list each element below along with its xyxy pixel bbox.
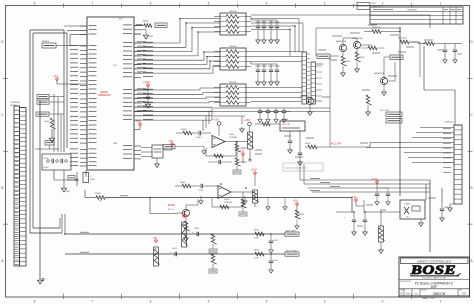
ground L4060 — [379, 248, 384, 253]
svg-text:7HB: 7HB — [113, 143, 118, 145]
ground C4070 — [155, 158, 160, 167]
U4000 right pin net labels — [143, 42, 153, 119]
supply +5V at C4070 — [163, 139, 173, 150]
svg-text:RN4001: RN4001 — [229, 46, 237, 48]
title block sheet row — [399, 296, 470, 300]
transistor Q4001 — [352, 37, 363, 52]
svg-text:C4045: C4045 — [198, 190, 203, 192]
svg-text:SM100-4R: SM100-4R — [398, 38, 407, 40]
transistor Q4002 — [374, 72, 388, 90]
svg-text:C4052: C4052 — [273, 240, 278, 242]
wire opamp2 output right — [243, 186, 300, 192]
resistor R4010 — [134, 21, 152, 28]
supply +1.3V mid — [238, 149, 245, 163]
wire AUD_LEFT line — [65, 214, 285, 234]
svg-text:8: 8 — [34, 300, 36, 304]
svg-text:C4000: C4000 — [90, 179, 95, 181]
svg-text:PLL2 CA: PLL2 CA — [282, 123, 290, 126]
connector J4004 label — [444, 122, 455, 124]
svg-text:C4060: C4060 — [444, 207, 449, 209]
net label AUX_RIGHT — [285, 250, 299, 257]
ground C4060 — [440, 216, 445, 221]
svg-text:GND: GND — [149, 36, 154, 38]
svg-text:27962-B01: 27962-B01 — [224, 202, 232, 204]
wire top-right bus — [300, 15, 430, 196]
net label SCLK — [155, 23, 167, 28]
ground opamp1 input — [202, 146, 206, 154]
bus line labels lower — [80, 179, 340, 253]
capacitor C4061 — [375, 188, 379, 205]
ground mid 2 — [243, 196, 247, 204]
wire U4000 top-left pins — [64, 26, 87, 46]
bead L4060 — [379, 211, 385, 248]
svg-text:MA2N2907A: MA2N2907A — [374, 72, 385, 75]
resistor R4055 vertical — [209, 234, 217, 253]
wire RN4002 outputs — [251, 88, 302, 102]
net label BOTTOM1 — [233, 170, 241, 174]
capacitor C4051 polarized — [170, 248, 177, 256]
resistor R4057 series — [254, 230, 264, 240]
svg-text:C4051: C4051 — [172, 248, 177, 250]
supply -15V opamp2 — [251, 168, 257, 186]
capacitor C4060 — [440, 202, 449, 216]
wire xtal feed — [336, 211, 366, 213]
net label AUX_LEFT — [285, 230, 299, 237]
header J4003 stack — [311, 62, 316, 104]
resistor R4026 vertical — [366, 95, 372, 115]
ground opamp2 area 1 — [266, 198, 270, 210]
capacitor C4045 — [198, 184, 218, 192]
svg-text:+5V: +5V — [153, 236, 158, 240]
ground rail stub — [240, 127, 245, 132]
resistor R4056 vertical — [209, 254, 217, 273]
ground connector shield — [37, 278, 44, 284]
svg-text:6: 6 — [150, 2, 152, 6]
capacitor C4053 — [269, 254, 278, 273]
svg-text:SM100: SM100 — [345, 61, 350, 63]
wire rails under RN4002 — [134, 56, 330, 147]
BOSE logo — [410, 264, 461, 280]
wire opamp2 feedback — [212, 192, 255, 207]
safety controlled box — [401, 258, 469, 264]
svg-text:SM100: SM100 — [359, 57, 364, 59]
svg-text:SD: SD — [414, 293, 417, 295]
capacitor C4062 — [377, 188, 390, 205]
supply +15V opamp1 — [213, 117, 221, 135]
capacitor C4001 pill — [35, 141, 59, 150]
header J4002 stack — [302, 52, 310, 104]
svg-text:DWG NO: DWG NO — [421, 290, 428, 292]
svg-text:B: B — [401, 291, 403, 295]
capacitor bank C4020-C4023 — [251, 17, 280, 44]
svg-text:295963-001: 295963-001 — [98, 94, 111, 97]
svg-text:7: 7 — [92, 300, 94, 304]
svg-text:7: 7 — [92, 2, 94, 6]
supply +5V right of U4000 — [134, 119, 141, 130]
svg-text:R4050: R4050 — [299, 214, 304, 216]
svg-text:+5V: +5V — [136, 119, 141, 123]
svg-text:C4000: C4000 — [43, 158, 48, 160]
resistor R4021 vertical — [355, 52, 364, 67]
svg-text:+3.3V: +3.3V — [350, 195, 357, 199]
transistor zone detail labels — [300, 25, 414, 97]
resistor R4022 — [364, 27, 400, 33]
svg-text:REVISION: REVISION — [407, 10, 417, 12]
svg-text:varies w/ volume level: varies w/ volume level — [285, 166, 307, 169]
svg-text:DESCRIPTION: DESCRIPTION — [400, 281, 412, 283]
resistor R4041 feedback — [214, 154, 223, 158]
svg-text:00: 00 — [462, 292, 466, 296]
ground crystal cluster — [61, 186, 70, 193]
IC U4000 DSP body — [87, 17, 134, 170]
svg-text:+5V: +5V — [169, 139, 174, 143]
bead L4051 on AUD_RIGHT — [153, 236, 160, 266]
svg-text:R4010: R4010 — [143, 21, 149, 23]
capacitor C4041 — [208, 160, 232, 164]
capacitor row C4080-C4083 — [258, 108, 291, 123]
wire fan U4000 to RN4000 — [134, 19, 220, 74]
resistor R4000 — [85, 193, 105, 203]
supply -15V opamp1 — [244, 118, 251, 132]
wire RN4000 outputs — [251, 15, 300, 56]
resistor R4040 — [176, 129, 198, 135]
svg-text:C4050: C4050 — [194, 228, 199, 230]
capacitor C4030 — [288, 131, 293, 153]
svg-text:BLACK: BLACK — [42, 40, 50, 43]
wire fan U4000 mid to RN4002 — [134, 88, 220, 131]
svg-text:DSP: DSP — [431, 285, 438, 289]
svg-text:+1.3v: +1.3v — [238, 149, 245, 153]
capacitor C4040 — [196, 131, 211, 139]
svg-text:L7N: L7N — [113, 65, 117, 67]
bead L4045 — [253, 190, 259, 207]
title block outer — [399, 257, 470, 297]
svg-text:6: 6 — [150, 300, 152, 304]
net label TP4002 — [36, 112, 64, 116]
ground Q4000 emitter — [341, 71, 346, 76]
svg-text:U4000: U4000 — [229, 134, 234, 136]
crystal X4000 — [83, 173, 95, 183]
bead L4050 on AUD_LEFT — [181, 211, 188, 247]
svg-text:2: 2 — [382, 2, 384, 6]
svg-text:+15V: +15V — [244, 118, 250, 122]
svg-text:RN4000: RN4000 — [229, 11, 237, 13]
resistor R4028 top-right — [409, 40, 462, 45]
resistor R4004 vertical — [44, 118, 56, 136]
svg-text:4: 4 — [266, 2, 268, 6]
ground near mute right — [199, 196, 203, 204]
wire opamp1 feedback — [206, 142, 248, 157]
svg-text:R4000: R4000 — [95, 193, 101, 195]
oscillator box Y4000 — [400, 200, 425, 219]
capacitor C4065 — [336, 212, 400, 235]
net label PLL2 O/P pills — [380, 110, 402, 123]
wire bundle to J4004 — [366, 77, 454, 163]
connector J4000 label — [10, 102, 20, 107]
wire bus lower-right — [300, 160, 442, 252]
capacitor C4036 — [453, 44, 462, 64]
svg-text:R4040: R4040 — [181, 129, 186, 131]
ground R4010 — [143, 33, 153, 39]
resistor R4030 — [305, 143, 330, 149]
wire mute base — [149, 197, 178, 214]
resistor R4020 vertical — [341, 56, 350, 71]
wire PLL input — [255, 122, 280, 126]
svg-text:+3.3: +3.3 — [53, 74, 59, 78]
svg-text:RN4002: RN4002 — [229, 82, 237, 84]
wire RN outputs right extensions — [251, 19, 303, 53]
ground J4004 — [448, 204, 454, 211]
supply +3.3V upper-left — [53, 74, 87, 84]
svg-text:U4000: U4000 — [224, 199, 229, 201]
wire feed to J4004 — [423, 43, 455, 125]
resistor network RN4002 — [214, 82, 251, 106]
U4000 upper-right stub wires — [134, 24, 143, 34]
wire transistor interconnect — [343, 32, 395, 82]
connector J4004 stack — [454, 125, 462, 204]
capacitor C4050 polarized — [192, 228, 199, 236]
connector J4000 header — [14, 106, 26, 266]
net label Q4000 base — [317, 54, 339, 59]
net label opamp1 input — [163, 145, 204, 149]
transistor Q4003 — [306, 97, 322, 110]
MUTE label — [168, 204, 175, 211]
wire crystal cluster — [54, 170, 86, 186]
op-amp U4002A — [212, 134, 237, 148]
svg-text:2: 2 — [382, 300, 384, 304]
svg-text:PLL O: PLL O — [168, 209, 174, 211]
title block part number row — [399, 289, 470, 296]
svg-text:5: 5 — [208, 2, 210, 6]
header stack pin wires right — [316, 66, 323, 96]
ground R4004 — [49, 136, 54, 142]
ground Q4002 — [382, 90, 387, 95]
capacitor C4004 — [68, 176, 79, 182]
svg-text:CONN/LCD: CONN/LCD — [444, 122, 455, 124]
xtal area labels — [366, 198, 436, 210]
component box C4070 — [141, 145, 163, 158]
wire R4000 output — [85, 190, 352, 212]
junction dots audio lines — [64, 233, 272, 255]
svg-text:C4053: C4053 — [273, 260, 278, 262]
svg-text:280178: 280178 — [433, 292, 445, 296]
svg-text:Framingham, MA 01701-9168: Framingham, MA 01701-9168 — [422, 277, 446, 280]
wire xtal bus — [364, 196, 400, 212]
svg-text:GND: GND — [66, 191, 71, 193]
ground R4051 — [295, 224, 299, 229]
svg-text:+15V: +15V — [213, 117, 219, 121]
U4000 left pins — [80, 25, 97, 166]
svg-text:REV: REV — [459, 290, 462, 292]
revision table — [370, 7, 463, 24]
U4000 right pins — [123, 25, 141, 159]
svg-text:MUTE: MUTE — [168, 204, 175, 207]
svg-text:SHEET 1 OF 4: SHEET 1 OF 4 — [422, 298, 435, 300]
capacitor bank C4024-C4027 — [251, 62, 280, 86]
supply +3.3V right of U4000 — [134, 80, 150, 90]
supply +5V mid — [293, 199, 298, 210]
resistor network RN4001 — [214, 46, 251, 70]
title text — [399, 280, 470, 290]
svg-text:LT5MHz: LT5MHz — [404, 204, 410, 206]
sheet reference box 280178 — [357, 3, 381, 10]
svg-text:27962-A01: 27962-A01 — [229, 136, 237, 139]
resistor R4045 — [175, 182, 200, 188]
transistor Q4010 mute — [178, 209, 190, 221]
resistor R4024 — [361, 46, 384, 50]
net label Q4002 collector — [384, 55, 403, 77]
capacitor C4031 — [298, 131, 303, 165]
svg-text:MA2N2222A: MA2N2222A — [352, 37, 363, 40]
svg-text:CONN/DIG: CONN/DIG — [10, 102, 20, 104]
wire stub labels U4000 fan — [137, 42, 146, 111]
resistor R4046 feedback — [220, 205, 229, 209]
U4000 reference designator text — [98, 19, 123, 146]
bead L4040 — [248, 132, 262, 162]
note varies with volume level — [283, 163, 323, 171]
svg-text:+15V: +15V — [251, 168, 257, 172]
resistor R4051 vertical — [295, 210, 304, 224]
svg-text:R4058: R4058 — [254, 250, 259, 252]
PLL2 O/P red label — [331, 144, 341, 146]
svg-text:GND(9): GND(9) — [10, 105, 17, 107]
resistor R4058 series — [254, 250, 264, 260]
capacitor C4052 — [269, 234, 278, 253]
capacitor C4035 — [437, 44, 447, 64]
svg-text:1: 1 — [440, 2, 442, 6]
capacitor C4066 — [357, 212, 367, 235]
svg-text:SM100-4R: SM100-4R — [372, 27, 381, 29]
svg-text:5: 5 — [208, 300, 210, 304]
J4004 row labels — [443, 129, 451, 173]
svg-text:3: 3 — [324, 300, 326, 304]
ground Q4003 — [308, 110, 313, 115]
wire bundle mid — [330, 143, 404, 153]
svg-text:3: 3 — [324, 2, 326, 6]
svg-text:+3.3V: +3.3V — [371, 177, 378, 181]
capacitor C4015 — [145, 90, 150, 108]
ground Y4000 — [419, 219, 424, 226]
svg-text:C4040: C4040 — [196, 137, 201, 139]
resistor R4023 — [398, 38, 420, 78]
svg-text:280178: 280178 — [372, 5, 381, 9]
wire RN4001 outputs — [251, 52, 302, 62]
decoupling box C4002/C4003 — [42, 154, 71, 170]
net label TP4000 — [37, 95, 64, 99]
svg-text:1: 1 — [440, 300, 442, 304]
resistor R4050 vertical — [184, 221, 189, 236]
ground Q4001 emitter — [355, 67, 360, 72]
svg-text:R4057: R4057 — [254, 230, 259, 232]
wire mute collector — [186, 199, 198, 209]
svg-text:PLL2 O/P: PLL2 O/P — [380, 110, 389, 112]
svg-text:SIZE: SIZE — [401, 290, 404, 292]
wire bus loop upper-left — [30, 30, 67, 233]
resistor R4047 vertical — [239, 199, 247, 216]
transistor Q4000 — [336, 40, 347, 56]
svg-text:MA2N2222A: MA2N2222A — [336, 40, 347, 43]
resistor network RN4000 — [214, 11, 251, 35]
ground mute — [184, 236, 189, 241]
svg-text:8: 8 — [34, 2, 36, 6]
wire connector shield ground — [39, 100, 41, 278]
net label TP4001 — [37, 100, 64, 104]
svg-text:+5V: +5V — [293, 199, 298, 203]
supply +3.3V xtal — [350, 195, 364, 206]
svg-text:4: 4 — [266, 300, 268, 304]
svg-text:R4045: R4045 — [180, 182, 185, 184]
wire AUD_RIGHT line — [65, 234, 285, 254]
svg-text:PLL2 O/P: PLL2 O/P — [331, 144, 341, 146]
svg-text:+3.3V: +3.3V — [143, 80, 150, 84]
net label BLACK — [42, 40, 87, 48]
resistor R4042 vertical — [235, 141, 246, 170]
svg-text:L4000: L4000 — [44, 121, 49, 123]
op-amp U4002B — [218, 186, 232, 205]
wire verticals right of connector — [54, 94, 61, 152]
ground opamp2 area 2 — [283, 198, 287, 210]
svg-text:0.01uF: 0.01uF — [43, 167, 49, 169]
supply +3.3V right — [371, 177, 378, 188]
PLL area extra labels — [284, 136, 368, 157]
U4000 left pin net labels — [70, 45, 78, 165]
svg-text:+5V: +5V — [181, 211, 186, 215]
IC U4001 PLL box — [280, 118, 305, 131]
wire loop bottom tails — [30, 214, 62, 233]
wire R4010 ground stub — [134, 30, 146, 33]
svg-text:R4030: R4030 — [305, 143, 310, 145]
junction dots wire fan — [179, 18, 401, 189]
